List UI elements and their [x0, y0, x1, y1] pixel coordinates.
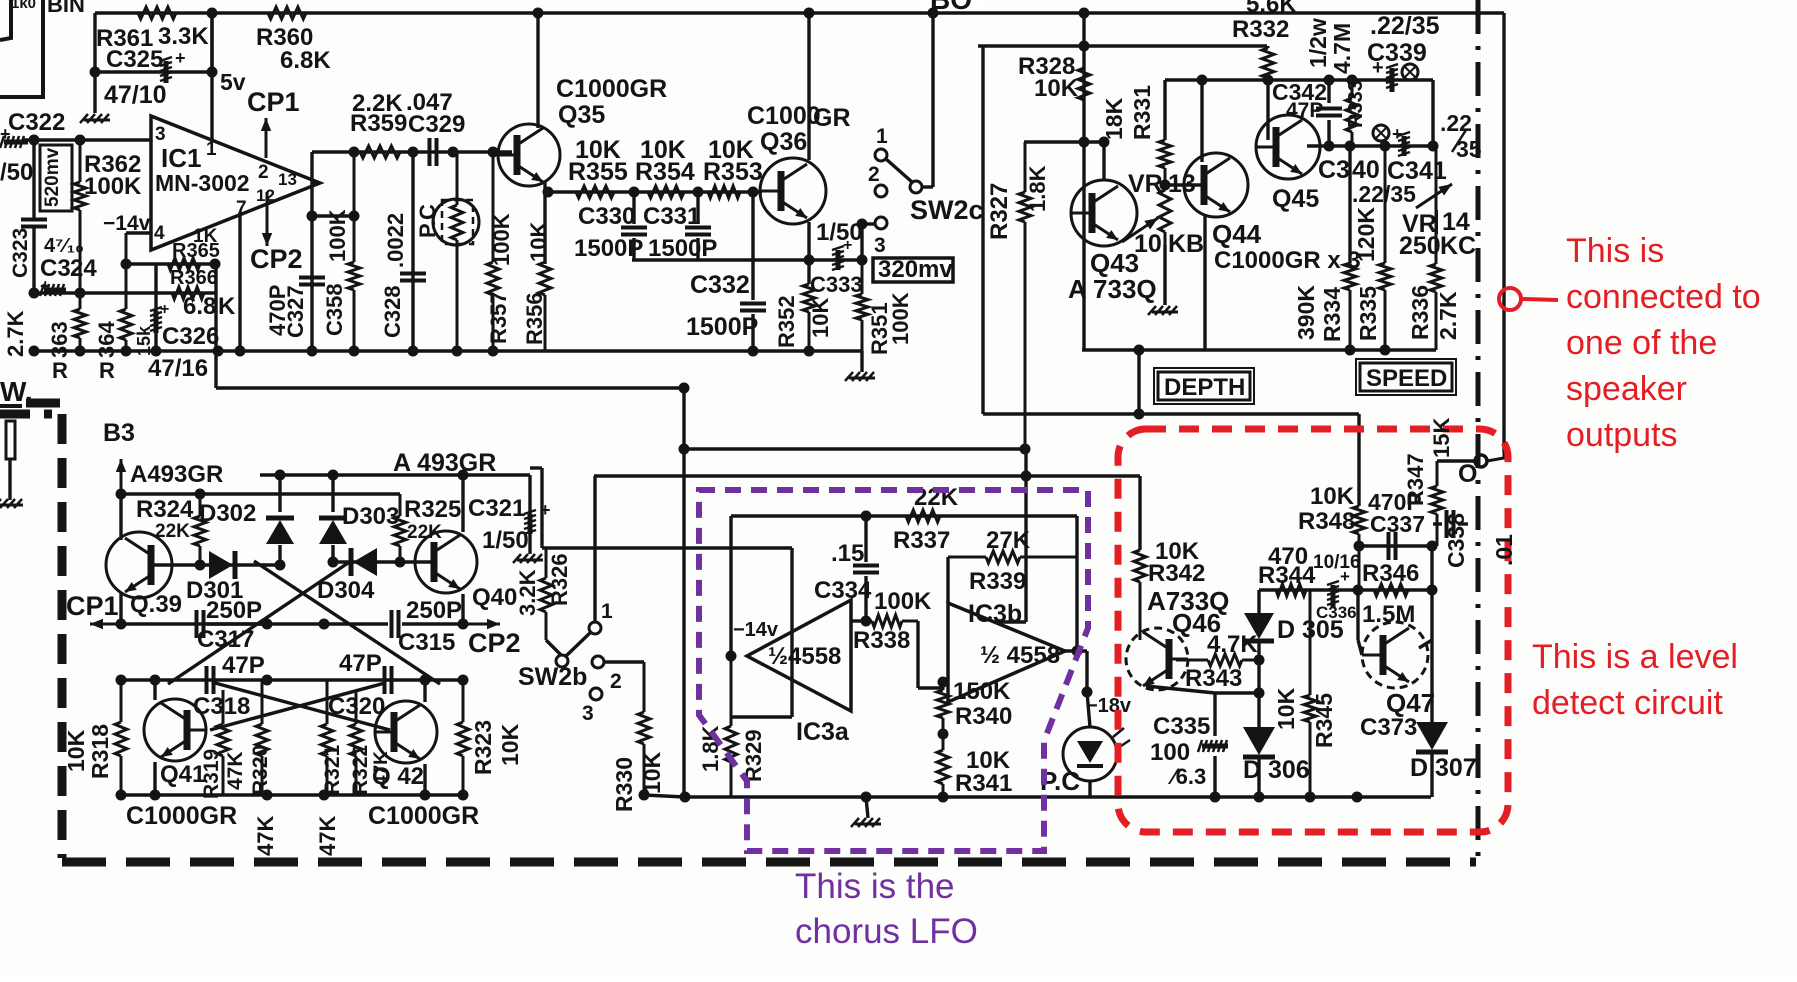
svg-text:R355: R355 [568, 158, 628, 186]
svg-text:10/16: 10/16 [1313, 552, 1361, 573]
svg-text:47P: 47P [222, 652, 265, 679]
junction 47p x267 [262, 675, 273, 686]
svg-text:R366: R366 [170, 267, 218, 289]
wire y546 row [1359, 544, 1432, 547]
wire y621 into IC3a [851, 619, 866, 622]
R333 polarity cross [1375, 127, 1387, 139]
svg-text:R: R [52, 358, 68, 383]
svg-text:C333: C333 [810, 272, 863, 297]
svg-text:10K: 10K [526, 222, 551, 262]
resistor R334 [1344, 263, 1356, 350]
W. underline [0, 404, 22, 408]
svg-text:47K: 47K [224, 751, 247, 790]
svg-text:C323: C323 [9, 228, 32, 278]
junction IC3a output node [726, 651, 737, 662]
junction IC3b out x1077 [1072, 646, 1083, 657]
junction C322/C323 [29, 135, 40, 146]
border corner piece [26, 399, 60, 408]
ground below C325 [80, 114, 110, 123]
CP2 output arrow [463, 619, 500, 629]
svg-text:C321: C321 [468, 495, 525, 522]
junction y192 C330 [629, 187, 640, 198]
DEPTH control box [1154, 368, 1254, 404]
svg-text:SPEED: SPEED [1366, 365, 1447, 392]
wire C334 top [864, 516, 867, 562]
wire y516 feedback [731, 514, 1077, 517]
wire C323 to rail [32, 227, 35, 293]
rheostat VR14 / resistor R336 [1430, 146, 1442, 350]
wire C342 bottom [1327, 120, 1330, 146]
svg-text:R343: R343 [1185, 665, 1242, 692]
svg-text:This is: This is [1566, 232, 1664, 270]
svg-text:R318: R318 [87, 724, 113, 779]
svg-text:15K: 15K [1429, 418, 1454, 458]
svg-text:C327: C327 [283, 285, 308, 338]
svg-text:47/16: 47/16 [148, 355, 208, 382]
IC3b output stub [1065, 649, 1087, 652]
svg-text:−14v: −14v [733, 619, 779, 641]
junction rail351 x126 [121, 346, 132, 357]
input connector box outer (partial, top-left) [0, 0, 43, 97]
svg-text:Q44: Q44 [1212, 219, 1262, 249]
svg-text:120K: 120K [1353, 207, 1379, 262]
schematic frame bottom dashed border [62, 858, 1476, 867]
svg-text:R341: R341 [955, 770, 1012, 797]
svg-text:+: + [175, 48, 186, 68]
svg-text:IC1: IC1 [161, 143, 201, 173]
svg-text:C1000GR: C1000GR [556, 75, 667, 103]
junction rail797 x685 [680, 792, 691, 803]
wire C330 top [632, 192, 635, 224]
svg-text:250: 250 [1399, 232, 1441, 260]
svg-text:D 307: D 307 [1410, 754, 1477, 782]
SPEED control box [1356, 359, 1456, 395]
svg-text:6.8: 6.8 [183, 293, 216, 320]
diode D307 [1416, 722, 1448, 752]
svg-text:C328: C328 [380, 285, 405, 338]
wire x792 feedback drop [790, 548, 793, 717]
capacitor C329 [430, 138, 437, 166]
SW2c contact 2 [875, 185, 887, 197]
capacitor C324 [40, 284, 66, 296]
junction y476 x1026 [1021, 471, 1032, 482]
svg-text:1500P: 1500P [648, 235, 717, 262]
Q40 collector riser [461, 475, 464, 532]
svg-text:R337: R337 [893, 527, 950, 554]
svg-text:VR: VR [1128, 170, 1163, 198]
svg-text:D303: D303 [342, 503, 399, 530]
C338 stub right [1458, 522, 1468, 525]
resistor R324 [194, 494, 206, 565]
svg-text:2: 2 [868, 163, 880, 186]
VR13 wiper arrow from Q43 emitter [1122, 218, 1158, 242]
SW2b contact 2 [592, 656, 604, 668]
svg-text:13: 13 [278, 170, 297, 189]
photocoupler P.C lamp [1063, 727, 1130, 781]
wire PC down [1087, 692, 1090, 727]
junction y546 x1359 [1354, 541, 1365, 552]
wire PC bottom to rail [1088, 781, 1091, 797]
transistor Q35 [498, 124, 560, 186]
wire x948 feedback drop [946, 557, 949, 603]
junction rail351 x240 [235, 346, 246, 357]
capacitor C336 [1327, 581, 1339, 607]
svg-text:1/2w: 1/2w [1305, 18, 1331, 68]
svg-text:320mv: 320mv [878, 256, 953, 283]
svg-text:R333: R333 [1345, 80, 1367, 128]
junction rail351 x218 [213, 346, 224, 357]
wire x1165 y80 to R331 [1163, 80, 1166, 140]
junction rail475 D302 [275, 470, 286, 481]
svg-text:+: + [1372, 57, 1384, 79]
junction y590 x1432 [1427, 585, 1438, 596]
wire x1077 output riser [1075, 516, 1078, 651]
svg-text:CP2: CP2 [468, 628, 521, 658]
svg-text:+: + [160, 301, 169, 318]
resistor R340 [937, 682, 949, 734]
svg-text:250P: 250P [406, 597, 462, 624]
svg-text:R356: R356 [522, 292, 547, 345]
resistor R351 [856, 260, 868, 351]
junction R362 top [75, 135, 86, 146]
clock CP2 arrow from IC1 [262, 192, 272, 246]
svg-text:This is the: This is the [795, 867, 955, 906]
SW2c contact 1 [875, 149, 887, 161]
svg-text:100: 100 [1150, 739, 1190, 766]
diode D301 [209, 551, 235, 579]
svg-text:R325: R325 [404, 496, 461, 523]
junction PC node [1082, 687, 1093, 698]
capacitor C334 [853, 566, 879, 573]
svg-text:A 493GR: A 493GR [393, 449, 496, 477]
wire y548 row [542, 546, 792, 549]
junction C325 right [207, 67, 218, 78]
diode D304 [351, 548, 377, 576]
wire y717 to IC3a node [731, 715, 792, 718]
resistor R357 [487, 152, 499, 351]
potentiometer VR13 resistance [1159, 176, 1171, 245]
wire y46 rail [978, 44, 1267, 47]
junction y146 R335 [1380, 141, 1391, 152]
junction y146 C342 [1324, 141, 1335, 152]
svg-text:/50: /50 [0, 159, 33, 186]
wire D302 column top [278, 475, 281, 512]
B3 supply arrow [116, 459, 126, 494]
svg-text:D302: D302 [199, 500, 256, 527]
wire C321 bottom [528, 534, 531, 554]
wire x1082 Q43 base column [1082, 213, 1085, 350]
junction C332 top [748, 187, 759, 198]
svg-text:40: 40 [1352, 156, 1380, 184]
junction rail494 R324 [195, 489, 206, 500]
svg-text:5v: 5v [220, 69, 246, 95]
junction rail475 Q40 [458, 470, 469, 481]
wire x1259 to y693 [1257, 660, 1260, 693]
wire y350 [1082, 348, 1436, 351]
svg-text:.22/35: .22/35 [1370, 12, 1440, 40]
svg-text:C332: C332 [690, 271, 750, 299]
svg-text:+: + [843, 237, 852, 254]
wire input node stub [943, 680, 948, 683]
svg-text:R338: R338 [853, 627, 910, 654]
junction 47p x425 [420, 675, 431, 686]
junction D302 bottom [275, 560, 286, 571]
svg-text:3: 3 [874, 234, 886, 257]
svg-text:.22: .22 [1440, 110, 1472, 136]
svg-text:R353: R353 [703, 158, 763, 186]
wire D303 column top [331, 475, 334, 512]
svg-text:100K: 100K [84, 173, 142, 200]
wire IC1 output corner [310, 152, 313, 216]
svg-text:2: 2 [258, 162, 269, 183]
wire y152 R359 row [312, 150, 512, 153]
Q40 emitter drop [461, 594, 464, 624]
svg-text:C373: C373 [1360, 714, 1417, 741]
schematic frame left dashed border [0, 414, 62, 858]
junction y80 C342 [1324, 75, 1335, 86]
wire x983 column [981, 46, 984, 414]
resistor R325 [394, 494, 406, 562]
junction y546 x1432 [1427, 541, 1438, 552]
svg-text:47K: 47K [371, 751, 392, 786]
wire pin4 -14v [126, 231, 151, 234]
wire y693 [1215, 691, 1259, 694]
svg-text:47/10: 47/10 [104, 81, 167, 109]
cross diagonal C320 to Q41 [210, 683, 385, 730]
wire C331 bottom [696, 238, 699, 260]
wire Q35 collector to top rail [536, 13, 539, 128]
junction cp row x121 [116, 619, 127, 630]
resistor R318 [115, 680, 127, 795]
svg-text:B3: B3 [103, 419, 135, 447]
junction x684 y388 [679, 383, 690, 394]
svg-text:⁄6.3: ⁄6.3 [1167, 764, 1206, 789]
resistor R341 [937, 734, 949, 797]
cross diagonal 2 [168, 561, 351, 684]
svg-text:10: 10 [1134, 230, 1162, 258]
fuse element left edge [6, 421, 15, 459]
junction rail795 x324 [319, 790, 330, 801]
junction 47p x463 [458, 675, 469, 686]
transistor Q39 [106, 532, 172, 598]
junction R340/R341 [938, 729, 949, 740]
svg-text:½ 4558: ½ 4558 [980, 642, 1060, 669]
svg-text:12: 12 [256, 186, 275, 205]
junction VR13 base node [1160, 180, 1171, 191]
junction y259 x862 [857, 255, 868, 266]
svg-text:R: R [99, 358, 115, 383]
svg-text:C1000GR x 3: C1000GR x 3 [1214, 247, 1361, 274]
transistor Q36 [760, 158, 826, 224]
svg-text:IC3a: IC3a [796, 718, 850, 746]
capacitor C327 [299, 278, 325, 285]
ground below C321 [513, 554, 543, 563]
junction y216 right [349, 211, 360, 222]
resistor R362 [74, 140, 86, 293]
junction y80 Q44 [1197, 75, 1208, 86]
svg-text:520mv: 520mv [42, 147, 63, 207]
wire D304 row [333, 560, 400, 563]
Q42 emitter drop [423, 764, 426, 795]
SW2b contact 1 [589, 622, 601, 634]
svg-text:.0022: .0022 [383, 213, 408, 268]
svg-text:C1000GR: C1000GR [368, 802, 479, 830]
junction rail475 D303 [328, 470, 339, 481]
resistor R343 [1176, 654, 1259, 666]
520mv test-point box [40, 145, 72, 211]
wire IC1 pin7 down [238, 212, 241, 351]
svg-text:one of the: one of the [1566, 324, 1717, 362]
svg-text:1500P: 1500P [574, 235, 643, 262]
svg-text:C325: C325 [106, 46, 163, 73]
resistor R330 [638, 662, 650, 795]
junction rail293 b [75, 288, 86, 299]
resistor R366 [34, 287, 215, 299]
junction y350 R335 [1380, 345, 1391, 356]
svg-text:R331: R331 [1129, 85, 1155, 140]
junction rail R345 [1305, 792, 1316, 803]
Q39 emitter drop [119, 592, 122, 624]
svg-text:6.8K: 6.8K [280, 47, 331, 74]
capacitor C342 [1316, 109, 1342, 116]
capacitor C325 [160, 57, 172, 83]
capacitor C335 [1198, 740, 1228, 752]
wire C331 top [696, 192, 699, 224]
wire Q36 collector to top rail [807, 13, 810, 160]
wire VR13 top to Q44 base [1165, 183, 1202, 186]
resistor R354 [625, 186, 695, 198]
Q47 base stub [1358, 640, 1362, 655]
wire y80 rail [1165, 78, 1433, 81]
svg-text:R342: R342 [1148, 560, 1205, 587]
capacitor C326 [150, 307, 162, 333]
svg-text:3: 3 [582, 702, 594, 725]
svg-text:150K: 150K [953, 678, 1011, 705]
resistor R319 [217, 690, 229, 795]
resistor R320 [256, 680, 268, 795]
svg-text:D304: D304 [317, 577, 375, 604]
wire R351 ground stem [860, 351, 863, 372]
svg-text:+: + [1340, 567, 1350, 586]
junction top rail Q36 [804, 8, 815, 19]
svg-text:R327: R327 [986, 183, 1013, 240]
wire VR13 to ground [1163, 245, 1166, 305]
svg-text:100K: 100K [325, 209, 350, 262]
resistor R321 [321, 680, 333, 795]
svg-text:KB: KB [1168, 230, 1204, 258]
resistor R361 [110, 7, 212, 19]
resistor R359 [312, 146, 420, 158]
junction C334 rail [861, 792, 872, 803]
svg-text:outputs: outputs [1566, 416, 1678, 454]
junction rail795 x463 [458, 790, 469, 801]
svg-text:Q45: Q45 [1272, 185, 1319, 213]
wire rail y293 [34, 291, 215, 294]
svg-text:1.8K: 1.8K [698, 725, 723, 772]
svg-text:10K: 10K [1273, 687, 1299, 730]
svg-text:+: + [1392, 124, 1403, 144]
SW2c pivot [910, 181, 922, 193]
svg-text:R348: R348 [1298, 508, 1355, 535]
svg-text:R339: R339 [969, 568, 1026, 595]
wire D306 top [1257, 693, 1260, 727]
svg-text:C334: C334 [814, 577, 872, 604]
output node O [1475, 455, 1487, 467]
wire Q35 emitter column [543, 182, 546, 264]
wire y216 sub-rail [312, 214, 354, 217]
wire D307 top [1430, 640, 1433, 722]
junction top rail x1084 [1079, 8, 1090, 19]
CP row y624 mid [207, 622, 388, 625]
C341 value divider slash [1452, 130, 1466, 152]
junction y192 Q35emitter [543, 187, 554, 198]
wire x1084 down [1082, 13, 1085, 213]
capacitor C320 [385, 666, 392, 694]
320mv test box [873, 258, 953, 282]
SW2c contact 3 [875, 217, 887, 229]
wire C323 down [32, 140, 35, 219]
CP row y624 [121, 622, 263, 625]
svg-text:2.7K: 2.7K [3, 310, 28, 357]
capacitor C321 [524, 510, 536, 534]
svg-text:K: K [218, 293, 236, 320]
svg-text:Q40: Q40 [472, 584, 517, 611]
junction R357 top [488, 147, 499, 158]
svg-text:.15: .15 [831, 540, 864, 567]
ground below LFO rail [851, 818, 881, 827]
capacitor C315 [392, 610, 399, 638]
junction R352 rail [804, 346, 815, 357]
svg-text:R332: R332 [1232, 16, 1289, 43]
wire C321 top [528, 475, 531, 514]
svg-text:390K: 390K [1293, 285, 1319, 340]
svg-text:C317: C317 [197, 626, 254, 653]
resistor R328 [1078, 46, 1090, 142]
wire x684 column down to LFO [682, 388, 685, 797]
wire x918 down [916, 621, 919, 688]
clock CP1 arrow to IC1 [261, 118, 271, 158]
Q40 base wire y562 [400, 560, 434, 563]
svg-text:250P: 250P [206, 597, 262, 624]
svg-text:This is a level: This is a level [1532, 638, 1738, 676]
Q46 emitter to C335 wire [1146, 686, 1215, 693]
wire C326 column [154, 264, 157, 311]
svg-text:R334: R334 [1319, 287, 1345, 342]
Q41 collector riser [153, 680, 156, 700]
wire Q44 emitter down [1203, 214, 1206, 350]
junction R330 rail [639, 790, 650, 801]
junction top rail x212 [207, 8, 218, 19]
junction y152 x354 [349, 147, 360, 158]
junction 47p x121 [116, 675, 127, 686]
svg-text:2.7K: 2.7K [1435, 291, 1461, 340]
CP1 output arrow [90, 619, 150, 629]
svg-text:47K: 47K [315, 816, 340, 856]
junction C332 rail [748, 346, 759, 357]
capacitor C337 [1389, 532, 1396, 560]
speaker output corner [1487, 452, 1504, 461]
R333 polarity mark [1373, 125, 1389, 141]
bistable upper rail y475 [260, 473, 530, 476]
svg-text:C1000GR: C1000GR [126, 802, 237, 830]
wire y414 row [983, 412, 1359, 415]
junction base Q39/R324 [195, 560, 206, 571]
resistor R326 [540, 548, 552, 640]
junction y259 x809 [804, 255, 815, 266]
LFO bottom rail y797 [685, 795, 1431, 798]
svg-text:24: 24 [70, 255, 97, 282]
diode D305 [1244, 613, 1274, 641]
